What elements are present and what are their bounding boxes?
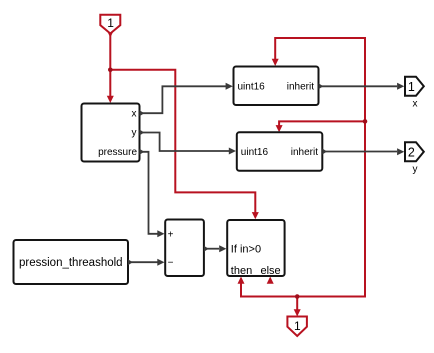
svg-text:then: then <box>231 265 252 277</box>
arrowhead black into uint16 1 <box>226 83 233 90</box>
svg-text:+: + <box>168 229 174 240</box>
arrowhead red into subsystem top <box>107 96 114 103</box>
outport 1 bottom <box>287 317 307 337</box>
svg-text:x: x <box>413 99 418 110</box>
subsystem block with x y pressure outputs <box>82 104 145 162</box>
wire black sum output to If input <box>204 248 219 250</box>
wire black subsystem x to uint16 1 <box>140 86 227 113</box>
If block <box>227 220 284 277</box>
wire red branch right and down to If block top <box>110 70 255 215</box>
svg-text:x: x <box>132 108 137 119</box>
node junction red at branch to bottom outport <box>295 294 300 299</box>
sum block <box>165 220 208 277</box>
wire black threshold to sum minus input <box>128 261 158 263</box>
svg-text:pressure: pressure <box>98 147 137 158</box>
wire black inherit 1 to outport x <box>319 85 398 87</box>
arrowhead red at else port pointing up <box>267 277 274 284</box>
arrowhead black into outport y <box>397 148 404 155</box>
data type conversion block uint16 1 <box>234 67 324 106</box>
node junction red at branch to uint16 2 <box>363 119 368 124</box>
svg-text:1: 1 <box>408 80 415 94</box>
svg-text:1: 1 <box>294 319 301 333</box>
arrowhead red into bottom outport <box>294 309 301 316</box>
arrowhead black into uint16 2 <box>229 148 236 155</box>
arrowhead black into sum minus <box>157 259 164 266</box>
svg-text:y: y <box>132 128 137 139</box>
arrowhead black into outport x <box>397 83 404 90</box>
svg-text:else: else <box>261 265 281 277</box>
arrowhead red below inport 1 <box>107 30 114 37</box>
wire red from inport 1 down to subsystem top <box>109 33 111 100</box>
svg-text:y: y <box>413 164 418 175</box>
wire red branch left to uint16 2 top <box>279 121 365 128</box>
wire black subsystem y to uint16 2 <box>140 133 230 152</box>
outport 2 y <box>405 142 424 175</box>
svg-text:−: − <box>168 258 174 269</box>
svg-text:inherit: inherit <box>287 82 314 93</box>
svg-text:If in>0: If in>0 <box>231 243 261 255</box>
data type conversion block uint16 2 <box>237 132 327 171</box>
wire black subsystem pressure to sum plus input <box>140 152 159 234</box>
arrowhead red at then port pointing up <box>238 277 245 284</box>
svg-text:pression_threashold: pression_threashold <box>19 257 123 269</box>
svg-text:uint16: uint16 <box>241 147 269 158</box>
svg-text:2: 2 <box>408 146 415 160</box>
arrowhead red into If block top <box>252 212 259 219</box>
inport 1 top <box>100 15 120 34</box>
wire red branch down to bottom outport <box>296 297 298 313</box>
svg-text:uint16: uint16 <box>238 82 266 93</box>
wire black inherit 2 to outport y <box>322 151 397 153</box>
arrowhead red into uint16 1 top <box>272 59 279 66</box>
svg-text:1: 1 <box>107 16 114 30</box>
wire red from then port down right and up to uint16 1 top <box>241 38 365 297</box>
constant block pression_threashold <box>14 240 133 284</box>
node junction red at branch to If <box>108 68 113 73</box>
arrowhead black into sum plus <box>157 230 164 237</box>
outport 1 x <box>405 77 424 110</box>
svg-text:inherit: inherit <box>291 147 318 158</box>
arrowhead black into If input <box>219 245 226 252</box>
arrowhead red into uint16 2 top <box>276 125 283 132</box>
